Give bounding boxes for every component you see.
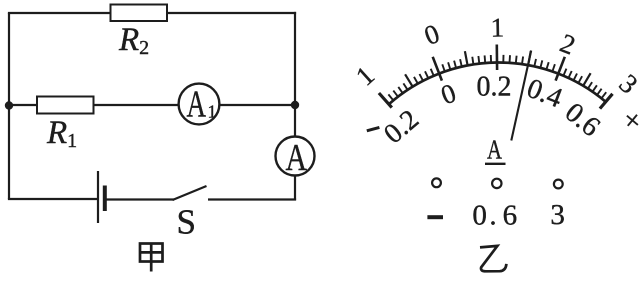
underline of A	[485, 163, 506, 165]
terminal negative	[432, 178, 441, 187]
major tick 0	[433, 57, 442, 81]
node junction right	[291, 101, 299, 109]
minor tick 2.7	[593, 85, 597, 91]
svg-text:R2: R2	[118, 22, 149, 59]
minor tick 0.2	[448, 62, 450, 69]
resistor R1	[37, 97, 94, 114]
wire A1 to node	[219, 104, 295, 106]
svg-text:R1: R1	[46, 115, 77, 152]
svg-text:+: +	[615, 103, 639, 139]
ammeter A	[276, 137, 315, 176]
svg-text:A: A	[487, 134, 502, 164]
wire R1 to A1	[94, 104, 180, 106]
svg-text:0.6: 0.6	[559, 97, 606, 143]
minor tick 1.7	[540, 60, 542, 67]
wire left vertical	[8, 13, 10, 199]
svg-text:1: 1	[350, 60, 380, 91]
svg-text:0.2: 0.2	[378, 104, 425, 150]
minor tick 2.4	[578, 76, 582, 83]
svg-text:0.2: 0.2	[477, 72, 512, 103]
minor tick 2.8	[597, 89, 602, 95]
minor tick 0.9	[490, 55, 492, 63]
minor tick -0.4	[414, 77, 418, 84]
svg-text:0.4: 0.4	[523, 73, 567, 114]
minor tick 2.2	[569, 71, 572, 78]
minor tick 1.6	[534, 59, 536, 67]
major tick 1	[495, 45, 498, 71]
minor tick 1.4	[522, 57, 523, 65]
wire bottom left segment	[8, 198, 97, 200]
terminal 0.6	[492, 179, 501, 188]
svg-text:S: S	[177, 202, 196, 241]
minor tick 2.1	[563, 69, 566, 76]
minor tick -0.1	[431, 69, 434, 76]
label Yi (meter face)	[480, 246, 506, 271]
medium tick -0.5	[405, 74, 413, 86]
switch S blade	[173, 186, 207, 200]
terminal 3	[554, 180, 563, 189]
wire bottom right segment	[208, 198, 296, 200]
svg-text:3: 3	[550, 199, 565, 231]
medium tick 0.5	[465, 51, 468, 65]
label Jia (circuit 1)	[140, 244, 163, 272]
medium tick 2.5	[583, 73, 590, 86]
medium tick 1.5	[528, 51, 531, 65]
svg-text:0: 0	[437, 78, 460, 111]
battery short plate	[103, 186, 107, 212]
minor tick -0.6	[403, 83, 407, 89]
minor tick 2.9	[602, 92, 607, 98]
minor tick -0.8	[393, 91, 398, 97]
terminal label minus	[427, 215, 443, 219]
scale end bar at -1.0	[379, 93, 392, 108]
inner scale minus sign	[367, 127, 380, 130]
minor tick -0.2	[425, 71, 428, 78]
minor tick -0.7	[398, 87, 402, 93]
wire top right segment	[167, 12, 296, 14]
minor tick -0.3	[420, 74, 424, 81]
svg-text:0: 0	[420, 18, 443, 51]
scale end bar at 3.0	[600, 94, 613, 109]
svg-text:A: A	[286, 137, 308, 179]
minor tick 1.3	[515, 56, 518, 64]
minor tick 0.1	[442, 64, 445, 71]
node junction left	[5, 101, 13, 109]
ammeter A1	[179, 84, 220, 125]
battery long plate	[97, 171, 99, 223]
svg-text:1: 1	[490, 12, 504, 42]
wire A to bottom corner	[294, 176, 296, 201]
minor tick 0.4	[460, 59, 462, 66]
minor tick 2.6	[588, 82, 592, 89]
minor tick 0.6	[472, 57, 473, 65]
wire right vertical upper	[294, 12, 296, 106]
minor tick 2.3	[574, 74, 578, 81]
minor tick 0.8	[484, 55, 487, 63]
dial scale arc	[389, 63, 606, 105]
svg-text:2: 2	[556, 28, 579, 61]
minor tick -0.9	[388, 94, 393, 100]
minor tick 0.7	[477, 56, 480, 64]
minor tick 0.3	[454, 61, 456, 69]
minor tick 1.8	[546, 62, 548, 69]
major tick 2	[556, 57, 565, 81]
wire top left segment	[8, 12, 111, 14]
meter needle	[511, 51, 531, 141]
resistor R2	[111, 5, 168, 22]
svg-text:3: 3	[613, 68, 639, 99]
minor tick 1.1	[502, 55, 504, 63]
minor tick 1.9	[552, 64, 555, 71]
wire node to ammeter A	[294, 105, 296, 137]
svg-text:0.6: 0.6	[472, 200, 517, 232]
wire node to R1	[9, 104, 37, 106]
minor tick 1.2	[509, 55, 512, 63]
wire battery to switch	[106, 198, 175, 200]
